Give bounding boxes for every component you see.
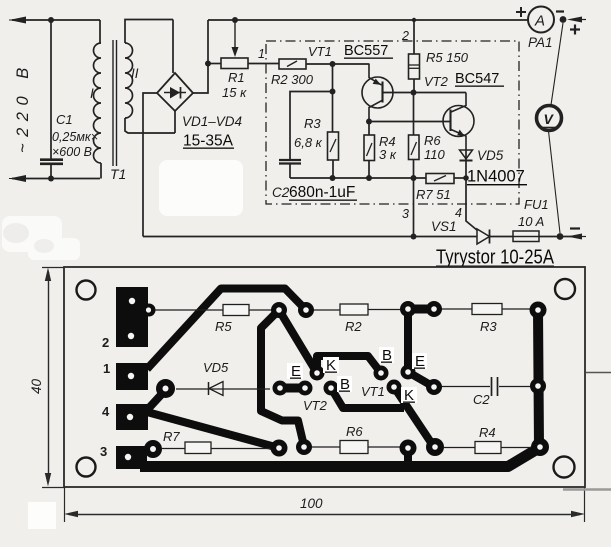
label minus right of PA1: [556, 10, 564, 12]
pad VT1 B: [374, 366, 389, 381]
wire pin3 to bottom rail: [413, 178, 415, 237]
svg-text:×600 В: ×600 В: [52, 145, 92, 159]
svg-text:VD5: VD5: [203, 360, 229, 375]
label C1 value: [52, 112, 98, 159]
svg-text:VS1: VS1: [431, 219, 457, 234]
svg-text:3 к: 3 к: [379, 147, 397, 162]
resistor R5: [409, 20, 420, 93]
trace R5 pad to VT2 collector pad: [279, 310, 317, 373]
svg-text:C1: C1: [56, 112, 73, 127]
pad VT1 E: [401, 365, 416, 380]
bridge rectifier VD1-VD4: [157, 73, 193, 111]
trace pad4 to R7 right pad: [147, 412, 279, 448]
label plus left of PA1: [516, 7, 526, 17]
svg-text:PA1: PA1: [528, 35, 553, 50]
label minus bottom: [570, 227, 580, 229]
pad VT2 E: [298, 381, 313, 396]
pad R3 left: [426, 301, 442, 317]
trace pad1 to R2 pad: [147, 289, 306, 370]
svg-text:B: B: [382, 347, 392, 364]
label B of VT2: [337, 376, 352, 393]
wire C2 top branch: [290, 92, 333, 160]
svg-text:4: 4: [102, 404, 110, 419]
svg-text:A: A: [534, 13, 545, 30]
node VT1 base R5 junction: [411, 90, 417, 96]
resistor R6: [409, 93, 420, 179]
fuse FU1: [513, 231, 580, 242]
trace R2R3 node to VT1 E: [408, 309, 434, 387]
component R6 on silk: [312, 441, 400, 454]
wire voltmeter bottom lead: [549, 131, 561, 233]
connector pad 2: [116, 287, 156, 347]
label E of VT1: [412, 353, 427, 370]
node pin3 bottom rail: [411, 234, 417, 240]
component VD5 on silk: [176, 382, 270, 396]
svg-text:BC547: BC547: [455, 71, 499, 87]
node R4 ground: [366, 175, 372, 181]
node output plus junction: [560, 16, 567, 23]
label BC547: [455, 71, 504, 87]
voltmeter V: [537, 106, 562, 131]
trace R2 pad bar to R3 pad: [408, 305, 434, 314]
svg-text:15 к: 15 к: [222, 85, 247, 100]
svg-text:II: II: [131, 66, 139, 81]
svg-text:~220 В: ~220 В: [14, 61, 32, 153]
component R2 on silk: [313, 304, 401, 315]
svg-text:VT2: VT2: [424, 74, 449, 89]
svg-text:T1: T1: [110, 166, 126, 182]
component C2 on silk: [442, 377, 530, 396]
wire output plus arrow: [567, 17, 586, 23]
svg-text:40: 40: [29, 378, 44, 394]
component R5 on silk: [155, 305, 272, 316]
resistor R4: [364, 122, 375, 179]
trace right vertical rail: [538, 310, 539, 447]
node C1 bottom junction: [48, 176, 54, 182]
svg-text:2: 2: [102, 335, 109, 350]
connector pad 3: [116, 440, 162, 469]
svg-text:1N4007: 1N4007: [467, 168, 525, 186]
svg-text:R6: R6: [346, 424, 363, 439]
svg-text:3: 3: [100, 444, 107, 459]
node R1 left junction: [205, 61, 211, 67]
label E of VT2: [287, 363, 303, 380]
svg-text:680n-1uF: 680n-1uF: [289, 184, 355, 201]
svg-text:3: 3: [402, 207, 409, 221]
connector pad 4: [116, 404, 148, 430]
transformer T1 core: [113, 40, 117, 166]
corner hole top-left: [77, 281, 96, 300]
dimension extension lines: [42, 268, 585, 523]
label plus right: [570, 25, 580, 35]
pad VT2 K: [310, 366, 325, 381]
pad R7 right: [271, 440, 288, 457]
thyristor VS1: [477, 229, 513, 244]
node C2 branch junction: [330, 89, 336, 95]
svg-text:C2: C2: [272, 185, 290, 200]
svg-text:R3: R3: [480, 319, 497, 334]
capacitor C2: [279, 160, 301, 178]
transformer T1 primary winding I: [94, 20, 102, 179]
pad C2 right: [530, 378, 546, 394]
transistor VT1: [362, 64, 413, 122]
wire 220V top line: [9, 17, 100, 24]
pad VD5 left: [156, 379, 175, 398]
resistor R1 with wiper arrow: [208, 20, 279, 69]
wire output minus arrow: [567, 234, 586, 240]
dimension 40: [45, 268, 51, 487]
svg-text:E: E: [415, 353, 425, 370]
svg-text:1: 1: [103, 361, 110, 376]
wire C1 top lead: [50, 20, 52, 159]
corner hole bottom-left: [77, 458, 96, 477]
trace VD5 to VT2 emitter bar: [280, 384, 305, 393]
whiteout blob under bridge: [159, 160, 243, 216]
label 15-35A: [183, 133, 234, 150]
svg-text:R4: R4: [479, 425, 496, 440]
capacitor C1: [40, 160, 63, 179]
svg-text:4: 4: [455, 206, 462, 220]
svg-text:2: 2: [401, 29, 409, 43]
diode VD5: [460, 149, 473, 177]
svg-text:0,25мк×: 0,25мк×: [52, 130, 98, 144]
transistor VT2: [443, 93, 474, 150]
svg-text:I: I: [90, 86, 94, 101]
label Tyrystor 10-25A: [436, 246, 554, 269]
pad R6 left: [296, 439, 312, 455]
wire node2 down to C2 branch: [332, 64, 334, 132]
node C1 top junction: [48, 17, 54, 23]
dimension 100: [64, 511, 585, 517]
wire VT1 collector to VT2 base: [369, 121, 451, 123]
svg-text:R5 150: R5 150: [426, 50, 469, 65]
svg-text:10 A: 10 A: [518, 214, 544, 229]
corner hole top-right: [555, 279, 575, 299]
svg-text:R7 51: R7 51: [416, 187, 451, 202]
label B of VT1: [379, 347, 394, 364]
component R7 on silk: [162, 442, 271, 454]
node VT1 collector junction: [366, 119, 372, 125]
stray line right of board: [586, 372, 611, 374]
pad C2 left: [426, 379, 442, 395]
trace VT1 K to R4 left pad: [394, 387, 434, 447]
label K of VT2: [323, 357, 339, 374]
node R6 ground: [411, 175, 417, 181]
component R4 on silk: [444, 442, 531, 454]
wire VT2 collector to base node: [414, 92, 467, 94]
pad R6 right: [400, 440, 417, 457]
wire bridge plus up to top rail: [193, 20, 208, 93]
svg-text:VT1: VT1: [308, 44, 332, 59]
svg-text:R2: R2: [345, 319, 362, 334]
svg-text:R7: R7: [163, 429, 180, 444]
gray line bottom right: [563, 488, 611, 491]
node output minus junction: [557, 233, 564, 240]
svg-text:E: E: [291, 363, 301, 380]
node R3 ground: [330, 175, 336, 181]
wire secondary to bridge top: [172, 20, 174, 74]
PCB board outline: [64, 267, 585, 487]
trace R6 right pad stub to rail: [404, 448, 412, 462]
wire top rail: [208, 19, 528, 21]
wire bridge minus to bottom rail: [143, 93, 157, 237]
trace R5 pad down to R6 left pad: [261, 310, 304, 446]
svg-text:B: B: [340, 376, 350, 393]
svg-text:VD1–VD4: VD1–VD4: [182, 114, 242, 129]
wire thyristor gate: [466, 178, 478, 231]
trace VT2 K to VT1 B: [317, 356, 381, 373]
pad VD5 right E: [273, 381, 288, 396]
pad R5 right: [271, 302, 287, 318]
node R1 wiper tap on rail: [232, 17, 238, 23]
pad R4 left: [426, 438, 444, 456]
pad R4 right: [531, 438, 549, 456]
svg-text:R1: R1: [228, 70, 245, 85]
svg-text:FU1: FU1: [524, 197, 549, 212]
pad R2 right: [400, 301, 416, 317]
svg-text:R2 300: R2 300: [271, 72, 314, 87]
svg-text:R3: R3: [304, 116, 321, 131]
transformer T1 secondary winding II: [125, 20, 175, 134]
component R3 on silk: [441, 304, 531, 315]
corner hole bottom-right: [554, 457, 575, 478]
node VD5 R7 junction: [463, 175, 469, 181]
svg-text:R5: R5: [215, 319, 232, 334]
svg-text:VT2: VT2: [303, 398, 328, 413]
trace bottom ground rail: [140, 448, 539, 467]
ammeter PA1: [528, 7, 554, 33]
svg-text:C2: C2: [473, 392, 490, 407]
node R2 right junction: [330, 61, 336, 67]
svg-text:VT1: VT1: [361, 384, 385, 399]
whiteout blob bottom left: [2, 216, 80, 260]
svg-text:BC557: BC557: [344, 43, 388, 59]
label K of VT1: [401, 387, 417, 404]
resistor R3: [328, 132, 339, 178]
label C2 value: [272, 184, 357, 201]
svg-text:15-35A: 15-35A: [183, 133, 234, 150]
pad VT1 K: [387, 380, 402, 395]
svg-text:6,8 к: 6,8 к: [294, 135, 323, 150]
pad VT2 B: [324, 381, 339, 396]
resistor R2: [279, 59, 369, 69]
svg-text:110: 110: [424, 147, 445, 162]
whiteout mark bottom left: [28, 502, 56, 529]
wire voltmeter top lead: [551, 23, 563, 105]
svg-text:VD5: VD5: [477, 148, 504, 163]
wire internal ground line: [290, 177, 426, 179]
svg-text:100: 100: [300, 496, 323, 511]
resistor R7: [426, 174, 466, 184]
svg-text:1: 1: [258, 47, 265, 61]
connector pad 1: [116, 363, 148, 390]
label 1N4007: [467, 168, 527, 186]
trace VD5 pad to pad4: [148, 390, 166, 409]
label BC557: [344, 43, 393, 59]
pad R2 left: [298, 302, 314, 318]
dashed module box: [266, 41, 519, 204]
wire 220V bottom line: [9, 175, 100, 182]
svg-text:Tyrystor 10-25A: Tyrystor 10-25A: [436, 246, 554, 269]
pad R3 right: [530, 302, 547, 319]
wire bridge bottom lead: [174, 111, 176, 133]
wire bottom rail: [143, 236, 477, 238]
svg-text:K: K: [326, 357, 336, 374]
trace VT2 B to VT1 K: [331, 388, 404, 408]
svg-text:K: K: [404, 387, 414, 404]
svg-text:R6: R6: [424, 133, 441, 148]
node pin2 rail: [412, 18, 416, 22]
